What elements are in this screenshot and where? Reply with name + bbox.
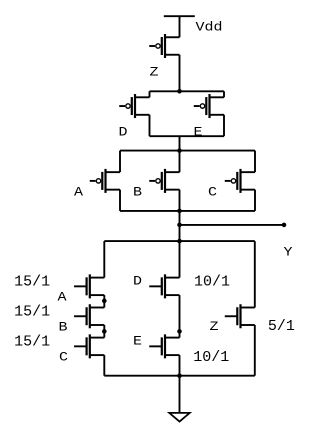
svg-text:A: A (74, 184, 83, 199)
svg-text:A: A (58, 289, 67, 304)
svg-text:5/1: 5/1 (268, 318, 295, 335)
svg-text:D: D (133, 274, 142, 289)
svg-text:C: C (59, 349, 68, 364)
svg-text:15/1: 15/1 (14, 333, 50, 350)
svg-text:15/1: 15/1 (14, 303, 50, 320)
svg-text:Y: Y (284, 244, 293, 259)
svg-text:D: D (119, 124, 128, 139)
svg-text:E: E (194, 124, 203, 139)
svg-text:10/1: 10/1 (193, 349, 229, 366)
svg-text:C: C (208, 184, 217, 199)
svg-text:Z: Z (150, 64, 159, 79)
svg-text:10/1: 10/1 (194, 273, 230, 290)
svg-text:E: E (133, 334, 142, 349)
svg-text:Z: Z (210, 319, 219, 334)
svg-text:B: B (59, 319, 68, 334)
svg-text:B: B (133, 184, 142, 199)
svg-text:15/1: 15/1 (14, 273, 50, 290)
svg-text:Vdd: Vdd (196, 19, 223, 34)
